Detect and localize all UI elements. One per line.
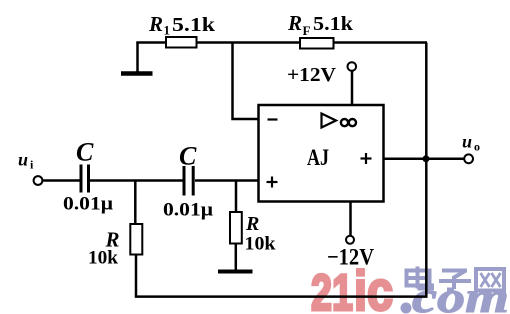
svg-text:5.1k: 5.1k xyxy=(313,13,354,35)
+12V terminal xyxy=(348,62,357,71)
junction dot output feedback xyxy=(423,155,430,162)
svg-text:u: u xyxy=(18,150,28,170)
resistor R1 xyxy=(166,37,197,48)
ground (top left) xyxy=(121,71,153,76)
svg-text:10k: 10k xyxy=(88,248,118,269)
watermark chinese char wang xyxy=(476,269,504,291)
svg-text:R: R xyxy=(148,12,163,36)
svg-text:u: u xyxy=(462,132,472,152)
resistor RF xyxy=(300,38,334,49)
wire inverting input drop xyxy=(233,43,259,120)
svg-text:1: 1 xyxy=(164,23,171,38)
resistor R right 10k xyxy=(230,212,242,244)
output wire xyxy=(384,158,465,161)
svg-text:−12V: −12V xyxy=(327,245,374,270)
bottom feedback wire xyxy=(135,295,428,298)
ground (under R right) xyxy=(218,270,253,274)
op-amp gain symbol triangle infinity xyxy=(322,114,337,128)
op-amp inverting input minus sign xyxy=(268,118,278,120)
svg-text:0.01μ: 0.01μ xyxy=(163,200,213,221)
watermark chinese char zi xyxy=(439,271,471,290)
svg-text:F: F xyxy=(303,23,311,38)
wire node1 drop to R xyxy=(134,181,137,225)
svg-text:AJ: AJ xyxy=(307,145,329,170)
resistor R left 10k xyxy=(130,224,142,255)
svg-text:21: 21 xyxy=(311,264,353,314)
op-amp U1 box xyxy=(259,105,384,202)
svg-text:C: C xyxy=(76,138,94,167)
wire R right to ground xyxy=(235,244,238,271)
watermark blue dot of .com xyxy=(401,303,412,314)
svg-text:R: R xyxy=(287,11,302,35)
-12V terminal xyxy=(346,236,354,244)
svg-text:+12V: +12V xyxy=(287,64,337,86)
svg-text:10k: 10k xyxy=(245,234,276,255)
capacitor C2 xyxy=(184,166,193,196)
op-amp non-inverting input plus sign xyxy=(267,177,278,188)
feedback wire vertical right xyxy=(425,43,428,297)
op-amp output plus sign xyxy=(361,153,372,164)
wire node2 drop to R right xyxy=(235,181,238,213)
watermark chinese char dian xyxy=(407,267,433,289)
svg-text:0.01μ: 0.01μ xyxy=(63,194,113,215)
svg-text:R: R xyxy=(245,213,259,235)
output terminal xyxy=(464,154,473,163)
input wire xyxy=(42,179,79,182)
svg-text:5.1k: 5.1k xyxy=(172,14,216,36)
input terminal xyxy=(34,176,43,185)
-12V supply pin wire xyxy=(349,202,352,236)
wire C2 to op-amp xyxy=(195,179,259,182)
capacitor C1 xyxy=(81,165,89,193)
+12V supply pin wire xyxy=(351,71,354,106)
wire R left bottom drop xyxy=(135,255,138,297)
svg-text:o: o xyxy=(474,140,480,154)
svg-text:C: C xyxy=(179,142,197,171)
wire top horizontal net R1-RF xyxy=(136,41,427,44)
svg-text:i: i xyxy=(30,158,34,172)
wire C1 to C2 xyxy=(90,179,183,182)
wire ground stem xyxy=(136,43,139,73)
